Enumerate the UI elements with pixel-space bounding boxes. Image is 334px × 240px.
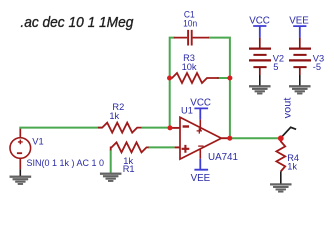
wire V3 to ground — [299, 75, 301, 86]
wire V2 to ground — [259, 75, 261, 86]
wire R4 to ground — [280, 171, 282, 183]
op-amp non-inverting input pin — [175, 146, 180, 148]
op-amp output pin — [221, 137, 230, 139]
svg-text:R1: R1 — [123, 164, 135, 174]
junction node R3 right — [227, 76, 232, 81]
svg-text:VCC: VCC — [190, 98, 211, 109]
resistor R2 — [98, 123, 142, 133]
svg-text:vout: vout — [283, 97, 294, 118]
wire feedback loop — [170, 38, 230, 139]
wire V1 to R2 — [20, 128, 102, 129]
svg-text:VEE: VEE — [289, 15, 309, 26]
wire R1 to op-amp — [148, 146, 175, 148]
wire R1 to ground — [110, 150, 112, 173]
wire R3 row — [217, 77, 230, 79]
op-amp VCC pin — [194, 108, 208, 119]
svg-text:10n: 10n — [183, 18, 197, 28]
junction node output — [227, 136, 232, 141]
ground of V3 — [289, 85, 310, 94]
junction node R3 left — [167, 76, 172, 81]
wire op-amp output row — [230, 137, 281, 139]
battery V2 — [249, 38, 271, 75]
node vout whisker — [281, 127, 296, 138]
svg-text:VCC: VCC — [249, 15, 270, 26]
svg-text:VEE: VEE — [191, 173, 211, 184]
op-amp power plus marker — [197, 128, 202, 133]
junction node vout — [278, 135, 284, 141]
voltage source V1 — [10, 129, 31, 169]
capacitor C1 — [174, 30, 209, 46]
resistor R3 — [169, 73, 218, 83]
wire V1 to ground — [19, 169, 21, 176]
ground of R1 — [100, 173, 121, 182]
op-amp VEE pin — [199, 149, 201, 159]
resistor R1 — [111, 142, 149, 152]
svg-text:1k: 1k — [287, 162, 297, 172]
op-amp input plus marker — [182, 145, 190, 153]
svg-text:5: 5 — [273, 62, 278, 72]
junction node R2/feedback — [168, 125, 173, 130]
svg-text:SIN(0 1 1k ) AC 1 0: SIN(0 1 1k ) AC 1 0 — [27, 158, 105, 168]
resistor R4 — [276, 138, 285, 171]
ground of V1 — [10, 176, 31, 185]
svg-text:-5: -5 — [313, 62, 321, 72]
battery V3 — [289, 38, 311, 75]
op-amp U1 — [180, 117, 221, 159]
svg-text:V1: V1 — [32, 137, 43, 147]
wire R2 to inverting node — [142, 127, 171, 129]
svg-text:10k: 10k — [182, 62, 197, 72]
op-amp inverting input pin — [172, 127, 180, 129]
ground of V2 — [249, 85, 270, 94]
svg-text:1k: 1k — [109, 111, 119, 121]
svg-text:.ac dec 10 1 1Meg: .ac dec 10 1 1Meg — [20, 14, 134, 31]
ground of R4 — [270, 184, 291, 193]
svg-text:UA741: UA741 — [208, 152, 238, 163]
op-amp power minus marker — [198, 145, 203, 147]
op-amp input minus marker — [183, 125, 189, 127]
